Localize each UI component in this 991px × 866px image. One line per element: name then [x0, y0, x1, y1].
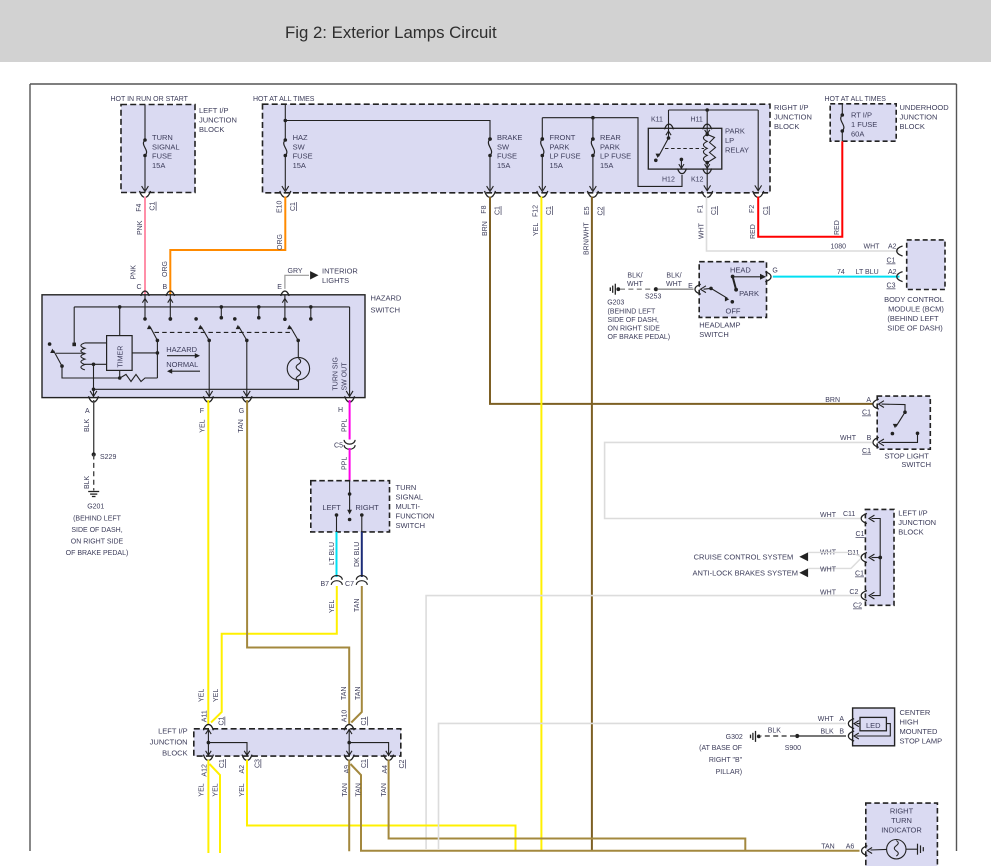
svg-text:E: E — [277, 284, 282, 291]
svg-text:C2: C2 — [598, 206, 605, 215]
svg-text:RED: RED — [750, 224, 757, 239]
connector A9 C1 exit — [344, 755, 354, 761]
wire BLK/WHT dashed from G203 to S253 — [620, 288, 653, 290]
svg-text:UNDERHOOD: UNDERHOOD — [900, 103, 950, 112]
svg-text:HOT AT ALL TIMES: HOT AT ALL TIMES — [825, 96, 887, 103]
svg-text:C2: C2 — [853, 603, 862, 610]
svg-text:G302: G302 — [726, 734, 743, 741]
svg-text:C3: C3 — [255, 759, 262, 768]
svg-text:BLK: BLK — [84, 475, 91, 489]
svg-text:BRAKE: BRAKE — [497, 133, 522, 142]
hazard pole 4 (pilot lamp) — [296, 339, 300, 343]
svg-text:(AT BASE OF: (AT BASE OF — [699, 745, 742, 752]
hazard resistor — [120, 374, 157, 381]
stop light switch terminal A — [873, 399, 879, 409]
svg-text:STOP LAMP: STOP LAMP — [900, 736, 943, 745]
wire BLK from hazard A to S229 — [93, 400, 95, 455]
svg-text:BRN: BRN — [482, 221, 489, 236]
svg-text:TURN: TURN — [152, 133, 173, 142]
hazard left switch (flasher select) — [48, 342, 52, 346]
relay H12 stub — [680, 158, 684, 162]
svg-text:BLK: BLK — [768, 728, 782, 735]
headlamp switch HEAD-PARK bar — [731, 275, 735, 279]
inline connector C5 — [344, 440, 355, 444]
svg-text:MOUNTED: MOUNTED — [900, 727, 938, 736]
svg-text:BRN/WHT: BRN/WHT — [584, 222, 591, 255]
svg-text:WHT: WHT — [698, 222, 705, 239]
svg-text:ON RIGHT SIDE: ON RIGHT SIDE — [608, 325, 661, 332]
svg-text:E10: E10 — [276, 200, 283, 213]
svg-text:C1: C1 — [887, 258, 896, 265]
svg-text:60A: 60A — [851, 130, 864, 139]
svg-text:WHT: WHT — [818, 716, 835, 723]
svg-text:C1: C1 — [711, 206, 718, 215]
svg-text:HEADLAMP: HEADLAMP — [699, 321, 740, 330]
svg-text:C11: C11 — [843, 511, 855, 518]
headlamp switch contacts — [704, 287, 712, 290]
relay mechanical dashed link — [665, 148, 704, 150]
svg-text:C1: C1 — [546, 206, 553, 215]
svg-text:F: F — [200, 408, 204, 415]
connector F1 C1 (relay coil output) — [702, 191, 713, 197]
headlamp switch G output — [733, 276, 763, 278]
svg-text:INTERIOR: INTERIOR — [322, 267, 358, 276]
headlamp switch box — [699, 262, 766, 318]
svg-text:SIGNAL: SIGNAL — [396, 493, 424, 502]
svg-text:B: B — [867, 435, 872, 442]
svg-text:BLOCK: BLOCK — [774, 122, 799, 131]
svg-text:LIGHTS: LIGHTS — [322, 276, 349, 285]
svg-text:FUNCTION: FUNCTION — [396, 512, 435, 521]
svg-text:SIDE OF DASH,: SIDE OF DASH, — [71, 527, 122, 534]
cruise control system arrow — [799, 552, 808, 561]
connector E10 C1 (HAZ fuse out) — [280, 191, 291, 197]
svg-text:ANTI-LOCK BRAKES SYSTEM: ANTI-LOCK BRAKES SYSTEM — [693, 569, 798, 578]
svg-text:1 FUSE: 1 FUSE — [851, 120, 877, 129]
wire PPL from hazard H to C5 — [349, 400, 351, 440]
timer output line — [132, 352, 157, 354]
svg-text:E: E — [688, 283, 693, 290]
hazard bus to H output — [349, 307, 351, 398]
svg-text:SIGNAL: SIGNAL — [152, 142, 180, 151]
svg-text:LP FUSE: LP FUSE — [550, 152, 581, 161]
connector E5 C2 (rear park fuse out) — [587, 191, 598, 197]
wire PPL from C5 to multifunction switch — [349, 448, 351, 481]
svg-text:WHT: WHT — [864, 244, 881, 251]
timer center line from bus — [118, 305, 122, 309]
svg-text:H: H — [338, 407, 343, 414]
ground G203 — [614, 284, 616, 295]
svg-text:G: G — [239, 408, 244, 415]
wire GRY stub to interior lights — [285, 275, 309, 289]
svg-text:1080: 1080 — [831, 244, 847, 251]
svg-text:OF BRAKE PEDAL): OF BRAKE PEDAL) — [608, 334, 671, 341]
svg-text:STOP LIGHT: STOP LIGHT — [884, 451, 929, 460]
CHMSL terminal B — [848, 731, 854, 741]
svg-text:TAN: TAN — [238, 419, 245, 432]
svg-text:LEFT I/P: LEFT I/P — [158, 727, 187, 736]
stop light switch box — [877, 396, 930, 449]
fuse: HAZ SW FUSE 15A — [284, 104, 286, 140]
LED return loop to B — [857, 724, 891, 736]
stop light switch internals — [879, 401, 884, 408]
svg-text:C1: C1 — [495, 206, 502, 215]
wire BRN from F8 to stop light switch A — [490, 197, 873, 404]
svg-text:SIDE OF DASH,: SIDE OF DASH, — [608, 317, 659, 324]
wire WHT to cruise control — [809, 552, 861, 556]
svg-text:LP FUSE: LP FUSE — [600, 152, 631, 161]
svg-text:DK BLU: DK BLU — [354, 542, 361, 567]
svg-text:YEL: YEL — [213, 689, 220, 702]
svg-text:RIGHT I/P: RIGHT I/P — [774, 103, 808, 112]
svg-text:TAN: TAN — [342, 783, 349, 796]
svg-text:FUSE: FUSE — [152, 152, 172, 161]
svg-text:MODULE (BCM): MODULE (BCM) — [888, 305, 944, 314]
svg-text:BLK/: BLK/ — [666, 273, 681, 280]
svg-text:RIGHT "B": RIGHT "B" — [709, 757, 743, 764]
svg-text:PARK: PARK — [725, 127, 745, 136]
relay switch arm — [659, 138, 669, 157]
svg-text:B: B — [163, 284, 168, 291]
svg-text:SW: SW — [497, 142, 510, 151]
svg-text:BLOCK: BLOCK — [898, 528, 923, 537]
svg-text:SWITCH: SWITCH — [901, 460, 931, 469]
svg-text:TAN: TAN — [356, 783, 363, 796]
svg-text:C1: C1 — [862, 410, 871, 417]
svg-text:C5: C5 — [334, 443, 343, 450]
svg-text:15A: 15A — [600, 161, 613, 170]
svg-text:SWITCH: SWITCH — [371, 305, 401, 314]
svg-text:C1: C1 — [150, 202, 157, 211]
svg-text:C3: C3 — [887, 283, 896, 290]
svg-text:B: B — [839, 729, 844, 736]
svg-text:A: A — [866, 397, 871, 404]
hazard switch box — [42, 295, 365, 398]
svg-text:15A: 15A — [293, 161, 306, 170]
svg-text:C1: C1 — [219, 716, 226, 725]
hazard pole 1 hazard-side contact stub — [169, 317, 173, 321]
svg-text:SW: SW — [293, 142, 306, 151]
hazard pole 2 (turn feed to F) — [194, 317, 198, 321]
svg-text:(BEHIND LEFT: (BEHIND LEFT — [73, 516, 122, 523]
hazard exit H — [345, 396, 355, 402]
wire TAN from A4 right-side run — [389, 760, 746, 851]
stop light switch terminal B — [873, 437, 879, 447]
svg-text:G: G — [772, 268, 777, 275]
svg-text:LEFT I/P: LEFT I/P — [898, 509, 927, 518]
svg-text:ORG: ORG — [162, 261, 169, 277]
svg-text:15A: 15A — [550, 161, 563, 170]
wire YEL from hazard F down to A11 — [207, 400, 209, 725]
svg-text:BLOCK: BLOCK — [900, 122, 925, 131]
title bar — [0, 0, 991, 62]
svg-text:GRY: GRY — [288, 268, 303, 275]
hazard pilot lamp — [297, 340, 299, 357]
wire TAN from C7 to junction block A10 — [351, 586, 362, 723]
body control module BCM box — [907, 240, 945, 290]
wire PNK from F4 to hazard switch C — [144, 197, 146, 295]
svg-text:A2: A2 — [888, 244, 897, 251]
ground G302 — [755, 731, 757, 742]
svg-text:PARK: PARK — [600, 142, 620, 151]
svg-text:PILLAR): PILLAR) — [716, 769, 742, 776]
anti-lock brakes system arrow — [799, 568, 808, 577]
svg-text:YEL: YEL — [212, 783, 219, 796]
relay K12 output to F1 — [706, 163, 708, 190]
splice S253 — [654, 287, 658, 291]
hazard A return from coil — [93, 364, 95, 389]
connector A12 C1 exit — [203, 755, 213, 761]
svg-text:LP: LP — [725, 136, 734, 145]
svg-text:FRONT: FRONT — [550, 133, 576, 142]
svg-text:JUNCTION: JUNCTION — [898, 518, 936, 527]
multifunction switch common arm — [349, 481, 351, 513]
fuse: TURN SIGNAL FUSE 15A — [144, 105, 146, 141]
splice S900 — [795, 734, 799, 738]
connector F2 C1 (battery feed) — [753, 191, 764, 197]
svg-text:HOT AT ALL TIMES: HOT AT ALL TIMES — [253, 96, 315, 103]
svg-text:BLK/: BLK/ — [627, 273, 642, 280]
wire YEL from B7 to junction block A11 — [211, 586, 337, 723]
svg-text:ON RIGHT SIDE: ON RIGHT SIDE — [71, 539, 124, 546]
svg-text:S229: S229 — [100, 454, 116, 461]
svg-text:G201: G201 — [87, 504, 104, 511]
svg-text:LED: LED — [866, 721, 881, 730]
connector A10 C1 entry — [344, 724, 354, 730]
svg-text:PARK: PARK — [739, 289, 759, 298]
connector A2 C3 exit — [242, 755, 252, 761]
svg-text:C1: C1 — [219, 759, 226, 768]
svg-text:YEL: YEL — [199, 419, 206, 432]
svg-text:INDICATOR: INDICATOR — [881, 826, 922, 835]
svg-text:FUSE: FUSE — [497, 152, 517, 161]
inline connector B7 — [331, 576, 342, 580]
svg-text:SWITCH: SWITCH — [699, 330, 729, 339]
svg-text:JUNCTION: JUNCTION — [150, 738, 188, 747]
wire LT BLU circuit 74 from G to BCM — [773, 276, 900, 278]
wire YEL pair below A12 — [207, 760, 209, 853]
svg-text:C: C — [137, 284, 142, 291]
svg-text:TAN: TAN — [354, 599, 361, 612]
wire YEL from A2 to front side marker run — [247, 760, 516, 850]
svg-text:F8: F8 — [481, 205, 488, 213]
svg-text:B7: B7 — [320, 581, 329, 588]
splice S229 — [92, 452, 96, 456]
connector A4 C2 exit — [384, 755, 394, 761]
svg-text:RT I/P: RT I/P — [851, 111, 872, 120]
svg-text:BODY CONTROL: BODY CONTROL — [884, 295, 944, 304]
svg-text:ORG: ORG — [277, 234, 284, 250]
svg-text:C2: C2 — [399, 759, 406, 768]
svg-text:15A: 15A — [152, 161, 165, 170]
svg-text:WHT: WHT — [627, 281, 644, 288]
svg-text:RELAY: RELAY — [725, 146, 749, 155]
left I/P junction block (stop lamp bus) — [865, 509, 894, 605]
center high mounted stop lamp box — [853, 708, 895, 746]
svg-text:F1: F1 — [698, 205, 705, 213]
right I/P junction block (HOT AT ALL TIMES) — [263, 104, 771, 193]
svg-text:RIGHT: RIGHT — [890, 807, 914, 816]
svg-text:FUSE: FUSE — [293, 152, 313, 161]
svg-text:H12: H12 — [662, 177, 675, 184]
ground G201 — [88, 491, 99, 493]
svg-text:BRN: BRN — [825, 397, 840, 404]
fuse: FRONT PARK LP FUSE 15A — [541, 118, 543, 139]
junction block internal right bus — [348, 729, 350, 756]
svg-text:F2: F2 — [749, 205, 756, 213]
fuse: BRAKE SW FUSE 15A — [488, 137, 492, 141]
hazard bus left drop to open contact — [73, 307, 75, 345]
svg-text:C7: C7 — [345, 581, 354, 588]
svg-text:HAZARD: HAZARD — [166, 345, 197, 354]
svg-text:S253: S253 — [645, 294, 661, 301]
inline connector C7 — [356, 576, 367, 580]
wire WHT to anti-lock brakes — [809, 559, 861, 568]
svg-text:G203: G203 — [607, 300, 624, 307]
wire RED from underhood fuse — [758, 141, 842, 237]
svg-text:C1: C1 — [862, 448, 871, 455]
svg-text:OFF: OFF — [726, 306, 741, 315]
wire BLK/WHT from S253 to headlamp switch E — [658, 288, 694, 290]
svg-text:TURN SIG: TURN SIG — [333, 357, 340, 390]
svg-text:C1: C1 — [856, 531, 865, 538]
wire: feed from HAZ fuse to BRAKE SW fuse — [285, 121, 490, 140]
svg-text:BLOCK: BLOCK — [199, 125, 224, 134]
fuse: REAR PARK LP FUSE 15A — [591, 116, 595, 120]
svg-text:15A: 15A — [497, 161, 510, 170]
svg-text:E5: E5 — [584, 206, 591, 215]
wire: park lamp feed bus from relay H12 to park fuses — [542, 118, 682, 187]
fuse: RT I/P 1 FUSE 60A — [841, 104, 843, 115]
CHMSL terminal A — [848, 719, 854, 729]
relay PARK LP RELAY box — [648, 128, 722, 169]
svg-text:YEL: YEL — [199, 783, 206, 796]
svg-text:TIMER: TIMER — [118, 346, 125, 368]
svg-text:TAN: TAN — [821, 844, 834, 851]
svg-text:YEL: YEL — [533, 223, 540, 236]
hazard switch entry B — [166, 291, 174, 296]
svg-text:A2: A2 — [239, 765, 246, 774]
LED module — [860, 717, 886, 730]
svg-text:74: 74 — [837, 269, 845, 276]
wire TAN from hazard G to A10 — [247, 400, 349, 725]
hazard internal top bus — [74, 306, 349, 308]
svg-text:RIGHT: RIGHT — [355, 503, 379, 512]
svg-text:A10: A10 — [342, 710, 349, 723]
wire BLK dashed to G302 — [761, 735, 795, 737]
svg-text:C1: C1 — [763, 206, 770, 215]
svg-text:WHT: WHT — [666, 281, 683, 288]
svg-text:A11: A11 — [202, 710, 209, 722]
svg-text:TAN: TAN — [381, 783, 388, 796]
svg-text:F12: F12 — [532, 205, 539, 217]
svg-text:WHT: WHT — [820, 567, 837, 574]
svg-text:C1: C1 — [855, 571, 864, 578]
svg-text:PPL: PPL — [341, 457, 348, 470]
svg-text:YEL: YEL — [329, 600, 336, 613]
svg-text:C1: C1 — [290, 202, 297, 211]
wire LT BLU from LEFT to B7 — [336, 532, 338, 577]
hazard timer coil — [81, 343, 85, 370]
connector F12 C1 (front park fuse out) — [537, 191, 548, 197]
svg-text:TURN: TURN — [891, 816, 912, 825]
junction block internal bus — [872, 519, 881, 596]
svg-text:LT BLU: LT BLU — [856, 269, 879, 276]
svg-text:HEAD: HEAD — [730, 266, 751, 275]
svg-text:S900: S900 — [785, 745, 801, 752]
svg-text:JUNCTION: JUNCTION — [199, 116, 237, 125]
hazard switch entry C — [141, 291, 149, 296]
wire WHT riser to center high mounted stop lamp — [439, 723, 847, 849]
wire BLK dashed to ground — [93, 455, 95, 491]
svg-text:SW OUT: SW OUT — [342, 362, 349, 391]
svg-text:HAZARD: HAZARD — [371, 294, 402, 303]
svg-text:K12: K12 — [691, 177, 704, 184]
svg-text:(BEHIND LEFT: (BEHIND LEFT — [608, 308, 657, 315]
wire WHT from stop light switch B to C11 — [605, 442, 873, 518]
connector F8 C1 (brake fuse out) — [485, 191, 496, 197]
wire TAN pair below A9 — [348, 760, 350, 852]
svg-text:A2: A2 — [888, 269, 897, 276]
svg-text:BLK: BLK — [84, 418, 91, 432]
svg-text:HAZ: HAZ — [293, 133, 308, 142]
underhood junction block — [830, 104, 896, 141]
svg-text:TAN: TAN — [341, 687, 348, 700]
svg-text:NORMAL: NORMAL — [166, 360, 198, 369]
svg-text:WHT: WHT — [820, 512, 837, 519]
left I/P junction block (bottom) — [194, 729, 401, 756]
diagram border frame — [30, 83, 957, 85]
svg-text:A6: A6 — [846, 844, 855, 851]
connector F4 C1 at left block exit — [140, 191, 151, 197]
svg-text:C1: C1 — [361, 759, 368, 768]
hazard exit G — [242, 396, 252, 402]
svg-text:F4: F4 — [136, 204, 143, 212]
svg-text:A: A — [85, 408, 90, 415]
wire DK BLU from RIGHT to C7 — [361, 532, 363, 577]
svg-text:REAR: REAR — [600, 133, 621, 142]
hazard exit A — [93, 389, 95, 397]
svg-text:LEFT I/P: LEFT I/P — [199, 106, 228, 115]
svg-text:PARK: PARK — [550, 142, 570, 151]
svg-text:CRUISE CONTROL SYSTEM: CRUISE CONTROL SYSTEM — [694, 553, 794, 562]
svg-text:CENTER: CENTER — [900, 708, 931, 717]
svg-text:H11: H11 — [691, 117, 703, 124]
svg-text:JUNCTION: JUNCTION — [774, 113, 812, 122]
right turn indicator bulb — [871, 848, 887, 851]
wire WHT circuit 1080 from F1 to BCM — [707, 197, 900, 252]
hazard ganged dashed link — [155, 331, 295, 333]
svg-text:LT BLU: LT BLU — [329, 542, 336, 565]
svg-text:WHT: WHT — [840, 435, 857, 442]
svg-text:A: A — [839, 716, 844, 723]
wire BRN/WHT from E5 down to bottom — [591, 197, 593, 851]
svg-text:SIDE OF DASH): SIDE OF DASH) — [887, 324, 943, 333]
hazard pole 3 (turn feed to G) — [233, 317, 237, 321]
svg-text:PPL: PPL — [341, 419, 348, 432]
svg-text:TURN: TURN — [396, 483, 417, 492]
junction block internal left bus — [207, 729, 209, 756]
wire ORG from E10 to hazard switch B — [170, 197, 285, 295]
relay feed line from F2 riser — [669, 109, 759, 111]
svg-text:RED: RED — [834, 220, 841, 235]
svg-text:PNK: PNK — [137, 220, 144, 235]
left I/P junction block (top, turn signal fuse) — [121, 105, 195, 193]
svg-text:HOT IN RUN OR START: HOT IN RUN OR START — [111, 96, 189, 103]
svg-text:C1: C1 — [361, 716, 368, 725]
svg-text:(BEHIND LEFT: (BEHIND LEFT — [887, 314, 939, 323]
hazard bottom bus to lamp — [94, 380, 299, 389]
